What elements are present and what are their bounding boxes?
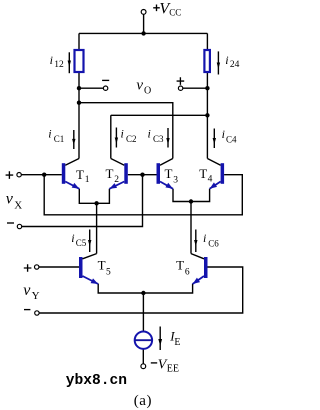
svg-text:i: i	[48, 127, 51, 141]
svg-text:T: T	[98, 257, 106, 272]
svg-text:i: i	[222, 127, 225, 141]
svg-text:C3: C3	[153, 134, 164, 144]
svg-text:v: v	[6, 190, 14, 207]
svg-text:i: i	[203, 231, 206, 245]
svg-text:CC: CC	[169, 8, 181, 18]
svg-text:C2: C2	[126, 134, 137, 144]
svg-text:3: 3	[173, 175, 178, 185]
svg-text:C1: C1	[54, 134, 65, 144]
svg-text:E: E	[174, 337, 180, 348]
svg-text:24: 24	[230, 60, 240, 70]
svg-text:Y: Y	[32, 290, 40, 302]
svg-text:i: i	[148, 127, 151, 141]
svg-text:2: 2	[114, 175, 119, 185]
svg-text:i: i	[121, 127, 124, 141]
svg-text:i: i	[71, 231, 74, 245]
svg-text:EE: EE	[167, 364, 179, 375]
svg-text:v: v	[136, 77, 143, 93]
svg-text:C4: C4	[226, 134, 237, 144]
svg-text:5: 5	[106, 267, 111, 277]
svg-text:X: X	[14, 200, 22, 212]
svg-text:T: T	[106, 166, 114, 181]
svg-text:T: T	[176, 257, 184, 272]
svg-text:(a): (a)	[134, 393, 152, 409]
svg-text:C5: C5	[76, 238, 87, 248]
svg-text:i: i	[225, 53, 228, 67]
svg-text:T: T	[165, 166, 173, 181]
svg-text:1: 1	[85, 175, 90, 185]
svg-text:v: v	[23, 282, 31, 299]
svg-text:4: 4	[208, 174, 213, 184]
svg-text:T: T	[199, 166, 207, 181]
svg-text:C6: C6	[208, 239, 219, 249]
svg-text:O: O	[144, 86, 151, 97]
svg-text:12: 12	[54, 60, 64, 70]
svg-text:6: 6	[185, 267, 190, 277]
svg-text:i: i	[50, 53, 53, 67]
svg-text:T: T	[76, 167, 84, 182]
svg-text:ybx8.cn: ybx8.cn	[66, 373, 127, 389]
